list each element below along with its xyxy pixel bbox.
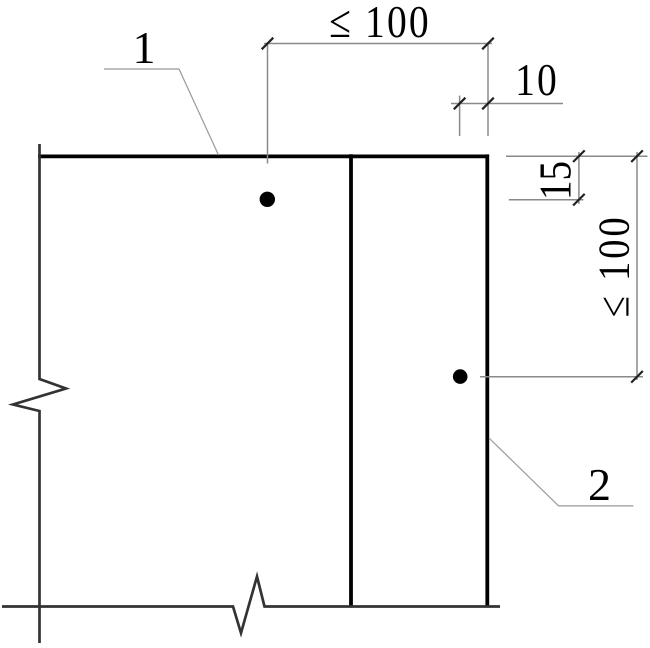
tick at (578.9,199.7) — [573, 194, 585, 206]
leader line for label 1 — [104, 69, 219, 155]
support right edge (element 2 outline) — [485, 154, 489, 607]
extension line from top edge to right — [506, 155, 648, 157]
svg-text:10: 10 — [515, 56, 559, 106]
bottom edge with break symbol — [2, 577, 500, 634]
extension line at upper fastener axis — [267, 44, 269, 164]
interior joint line — [349, 154, 353, 607]
tick at (578.9,156.2) — [573, 150, 585, 162]
dimension line 10 — [451, 103, 563, 105]
tick at (459.6,103.5) — [454, 98, 466, 110]
extension line at lower fastener axis (top) — [459, 96, 461, 136]
extension line at panel right face (top) — [487, 44, 489, 137]
fastener dot lower — [453, 369, 468, 384]
extension line at lower fastener row — [480, 376, 643, 378]
leader line for label 2 — [489, 438, 633, 506]
tick at (637,156.2) — [631, 150, 643, 162]
tick at (488,43.5) — [482, 38, 494, 50]
svg-text:≤ 100: ≤ 100 — [329, 0, 431, 48]
svg-text:≤ 100: ≤ 100 — [589, 214, 638, 317]
tick at (637,376.8) — [631, 371, 643, 383]
svg-text:1: 1 — [133, 22, 156, 73]
dimension line 15 vertical — [578, 152, 580, 204]
svg-text:2: 2 — [588, 459, 611, 510]
sheet top edge (element 1 outline) — [38, 154, 489, 158]
tick at (488,103.5) — [482, 98, 494, 110]
dimension line top (≤100) — [264, 43, 492, 45]
svg-text:15: 15 — [531, 161, 582, 200]
dimension line ≤100 vertical — [636, 152, 638, 380]
fastener dot upper — [260, 192, 275, 207]
extension line at first fastener row (15) — [509, 199, 584, 201]
tick at (267.5,43.5) — [262, 38, 274, 50]
left edge with break symbol — [13, 144, 66, 643]
